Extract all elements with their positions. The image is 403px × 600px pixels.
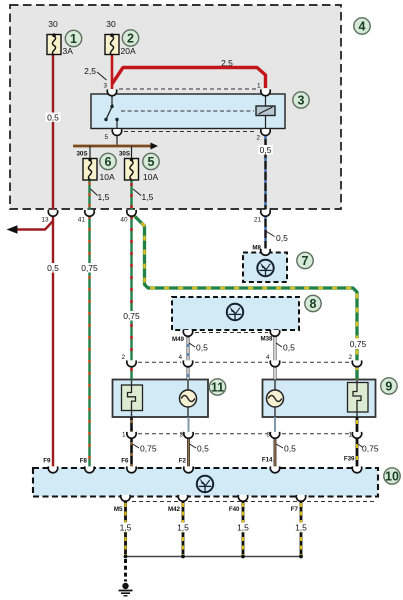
relay pin 1 arc bbox=[261, 89, 270, 95]
junction dot F7 bbox=[299, 555, 303, 559]
svg-text:30S: 30S bbox=[76, 151, 87, 158]
fuse F5 10A bbox=[125, 159, 139, 181]
relay pin 5 arc bbox=[112, 129, 121, 135]
svg-text:40: 40 bbox=[120, 217, 128, 224]
wire: relay pin5 stub to bus bbox=[116, 133, 118, 146]
wire: black/yellow ground wire F7 bbox=[300, 499, 303, 557]
box11 element symbol bbox=[122, 385, 143, 411]
svg-text:F14: F14 bbox=[262, 457, 273, 464]
circled number 9 bbox=[381, 378, 397, 394]
text 0,5 on red wire in box bbox=[46, 113, 61, 123]
bus 30S brown bbox=[73, 145, 151, 148]
svg-text:4: 4 bbox=[178, 354, 182, 361]
F14 arc bbox=[270, 466, 279, 472]
svg-text:3: 3 bbox=[298, 94, 305, 108]
svg-text:4: 4 bbox=[266, 354, 270, 361]
box9 lamp bbox=[267, 390, 284, 407]
svg-text:1: 1 bbox=[122, 432, 126, 439]
wire: black/yellow ground wire M5 bbox=[124, 499, 127, 557]
fog11 pin3 arc bbox=[184, 432, 193, 438]
svg-text:2: 2 bbox=[256, 135, 260, 142]
svg-text:2,5: 2,5 bbox=[221, 58, 233, 68]
svg-text:5: 5 bbox=[148, 155, 155, 169]
relay switch to pin5 stub bbox=[116, 120, 118, 129]
relay coil K bbox=[256, 106, 275, 116]
dashed link line top pins of fog lamps bbox=[138, 361, 181, 363]
svg-text:1,5: 1,5 bbox=[142, 192, 154, 202]
svg-text:0,75: 0,75 bbox=[140, 444, 157, 454]
mounting block (box 4) bbox=[10, 5, 341, 209]
fog11 pin1 arc bbox=[127, 432, 136, 438]
text 1,5 M42 bbox=[176, 523, 191, 533]
junction symbol in box 8 bbox=[227, 304, 243, 320]
leader lines for size labels bbox=[91, 189, 98, 196]
text 1,5 F40 bbox=[236, 523, 251, 533]
svg-text:3: 3 bbox=[179, 432, 183, 439]
M5 arc bbox=[121, 495, 130, 501]
F39 arc bbox=[352, 466, 361, 472]
svg-text:9: 9 bbox=[385, 380, 392, 394]
F7 arc bbox=[296, 495, 305, 501]
svg-text:10A: 10A bbox=[143, 172, 158, 182]
dashed link line box8 bottom pins bbox=[195, 332, 268, 334]
fuse F6 10A bbox=[83, 159, 97, 181]
box 10 ground distribution body bbox=[33, 468, 378, 497]
pin 13 arc bbox=[48, 210, 57, 216]
circled number 5 bbox=[143, 153, 159, 169]
svg-text:0,5: 0,5 bbox=[283, 343, 295, 353]
fog9 pin2 arc bbox=[352, 360, 361, 366]
box 9 right fog lamp body bbox=[263, 380, 376, 418]
svg-text:21: 21 bbox=[254, 217, 262, 224]
relay pin 3 arc bbox=[107, 89, 116, 95]
wire: white M38 to fog lamp 9 pin4 bbox=[274, 334, 277, 361]
relay pin 2 arc bbox=[261, 129, 270, 135]
M42 arc bbox=[178, 495, 187, 501]
svg-text:1: 1 bbox=[348, 432, 352, 439]
wire: green/yellow branch pin40 to fog lamp 9 pin2 bbox=[132, 213, 358, 361]
junction symbol in box 10 bbox=[197, 476, 213, 492]
svg-text:7: 7 bbox=[302, 254, 309, 268]
circled number 11 bbox=[209, 379, 225, 395]
box9 element symbol bbox=[348, 383, 369, 413]
text 0,75 green wire F8 bbox=[81, 263, 99, 273]
svg-text:0,5: 0,5 bbox=[47, 113, 59, 123]
svg-text:0,75: 0,75 bbox=[81, 263, 98, 273]
text 1,5 F7 bbox=[294, 523, 309, 533]
svg-text:20A: 20A bbox=[121, 46, 136, 56]
pin 21 arc bbox=[261, 210, 270, 216]
wire: black/blue relay pin2 to pin21 to M8 bbox=[264, 133, 266, 210]
F8 arc bbox=[85, 466, 94, 472]
circled number 8 bbox=[305, 295, 321, 311]
relay contact dot C bbox=[115, 118, 118, 121]
ground lead dashed bbox=[124, 559, 127, 582]
bus stub to fuse F5top bbox=[131, 146, 133, 159]
relay internal dashed line bbox=[121, 110, 254, 112]
svg-text:F2: F2 bbox=[179, 458, 187, 465]
wire: branch to left arrow bbox=[17, 221, 53, 230]
svg-text:10: 10 bbox=[385, 470, 399, 484]
svg-text:8: 8 bbox=[310, 297, 317, 311]
circled number 1 bbox=[65, 30, 81, 46]
M38 arc bbox=[270, 330, 279, 336]
relay coil to pin2 stub bbox=[265, 116, 267, 129]
wire: black/yellow ground wire M42 bbox=[182, 499, 185, 557]
text 0,75 green wire 40 bbox=[123, 311, 141, 321]
circled number 10 bbox=[384, 468, 400, 484]
svg-text:0,75: 0,75 bbox=[362, 444, 379, 454]
svg-text:10A: 10A bbox=[100, 172, 115, 182]
junction symbol in box 7 bbox=[257, 260, 273, 276]
M49 arc bbox=[183, 330, 192, 336]
wire: white/blue M49 to fog lamp 11 pin4 bbox=[187, 334, 190, 361]
svg-text:F9: F9 bbox=[43, 458, 51, 465]
wire: black/brown fog11 pin1 to F6 bbox=[130, 417, 133, 467]
circled number 3 bbox=[293, 92, 309, 108]
svg-text:1,5: 1,5 bbox=[98, 192, 110, 202]
box9 internal wire right bbox=[356, 380, 358, 384]
svg-text:11: 11 bbox=[211, 381, 224, 395]
svg-text:30S: 30S bbox=[119, 151, 130, 158]
F2 arc bbox=[184, 466, 193, 472]
svg-text:F7: F7 bbox=[291, 506, 299, 513]
fuse F2 20A bbox=[105, 35, 119, 55]
fog9 pin4 arc bbox=[270, 360, 279, 366]
svg-text:F8: F8 bbox=[80, 458, 88, 465]
svg-text:1: 1 bbox=[70, 32, 77, 46]
svg-text:5: 5 bbox=[104, 134, 108, 141]
relay switch feed stub bbox=[111, 95, 113, 107]
fuse F1 3A bbox=[47, 35, 61, 55]
fog11 pin2 arc bbox=[127, 360, 136, 366]
circled number 2 bbox=[122, 30, 138, 46]
svg-text:1: 1 bbox=[257, 83, 261, 90]
svg-text:4: 4 bbox=[359, 20, 366, 34]
svg-text:0,5: 0,5 bbox=[47, 263, 59, 273]
bus arrowhead bbox=[151, 143, 159, 150]
svg-text:3A: 3A bbox=[63, 46, 74, 56]
svg-text:M49: M49 bbox=[172, 336, 185, 343]
svg-text:6: 6 bbox=[105, 155, 112, 169]
F9 arc bbox=[48, 466, 57, 472]
svg-text:41: 41 bbox=[78, 217, 86, 224]
svg-text:2,5: 2,5 bbox=[84, 66, 96, 76]
box 11 left fog lamp body bbox=[113, 380, 209, 418]
wire: dark red from fuse F1 down to F9 bbox=[52, 54, 54, 210]
relay top pin link dashed bbox=[119, 88, 258, 90]
junction dot M42 bbox=[181, 555, 185, 559]
fog9 pin3 arc bbox=[270, 432, 279, 438]
wire: black/yellow fog9 pin1 to F39 bbox=[356, 417, 359, 467]
box11 lamp bbox=[180, 390, 197, 407]
text 0,5 red wire lower bbox=[46, 263, 61, 273]
M8 arc bbox=[261, 249, 270, 255]
svg-text:1,5: 1,5 bbox=[120, 523, 132, 533]
svg-text:30: 30 bbox=[48, 19, 58, 29]
svg-text:M5: M5 bbox=[114, 506, 123, 513]
svg-text:1,5: 1,5 bbox=[237, 523, 249, 533]
text 0,75 gy wire bbox=[349, 339, 367, 350]
F40 arc bbox=[238, 495, 247, 501]
svg-text:F39: F39 bbox=[344, 456, 355, 463]
relay bottom pin link dashed bbox=[124, 131, 257, 133]
text 0,5 blue wire upper bbox=[258, 145, 273, 155]
wire: thick red branch to relay pin 1 bbox=[112, 68, 266, 89]
pin 41 arc bbox=[85, 210, 94, 216]
text 1,5 M5 bbox=[118, 523, 133, 533]
svg-text:0,5: 0,5 bbox=[260, 145, 272, 155]
junction dot F40 bbox=[241, 555, 245, 559]
svg-text:1,5: 1,5 bbox=[177, 523, 189, 533]
dashed link line bottom pins of fog lamps bbox=[138, 433, 182, 435]
box 7 junction unit body bbox=[243, 253, 287, 283]
svg-text:13: 13 bbox=[41, 217, 49, 224]
junction dot M5 bbox=[124, 555, 128, 559]
wire: bright red fuse F2 to relay pin 3 bbox=[111, 54, 114, 89]
pin 40 arc bbox=[127, 210, 136, 216]
box11 internal wire left bbox=[131, 380, 133, 387]
ground point bbox=[122, 583, 128, 589]
svg-text:2: 2 bbox=[348, 354, 352, 361]
svg-text:0,5: 0,5 bbox=[284, 444, 296, 454]
wire: green/red from fuse5 to pin40 to fog lamp 11 bbox=[130, 180, 132, 210]
svg-text:3: 3 bbox=[266, 432, 270, 439]
relay coil feed stub bbox=[265, 95, 267, 107]
relay switch blade bbox=[106, 105, 113, 120]
svg-text:2: 2 bbox=[121, 354, 125, 361]
circled number 7 bbox=[297, 252, 313, 268]
relay box U3 body bbox=[91, 94, 285, 129]
circled number 6 bbox=[100, 153, 116, 169]
arrowhead left bbox=[7, 225, 18, 233]
ground collector line bbox=[126, 556, 302, 558]
wire: gray/tan fog9 pin3 to F14 bbox=[274, 417, 276, 432]
fog11 pin4 arc bbox=[183, 360, 192, 366]
svg-text:30: 30 bbox=[106, 19, 116, 29]
svg-text:F40: F40 bbox=[229, 506, 240, 513]
bus stub to fuse F6top bbox=[89, 146, 91, 159]
box 8 junction unit body bbox=[172, 297, 299, 330]
fog9 pin1 arc bbox=[352, 432, 361, 438]
dashed link line box10 bottom pins bbox=[132, 501, 376, 503]
svg-text:M8: M8 bbox=[252, 245, 261, 252]
svg-text:M38: M38 bbox=[260, 336, 273, 343]
svg-text:0,5: 0,5 bbox=[197, 444, 209, 454]
relay contact dot B bbox=[104, 118, 107, 121]
wire: brown fog11 pin3 to F2 bbox=[188, 417, 190, 432]
svg-text:0,5: 0,5 bbox=[276, 233, 288, 243]
svg-text:F6: F6 bbox=[121, 458, 129, 465]
wire: black/yellow ground wire F40 bbox=[242, 499, 245, 557]
svg-text:0,75: 0,75 bbox=[350, 339, 367, 349]
circled number 4 bbox=[354, 18, 370, 34]
svg-text:0,5: 0,5 bbox=[196, 343, 208, 353]
svg-text:3: 3 bbox=[103, 83, 107, 90]
svg-text:M42: M42 bbox=[168, 506, 181, 513]
wire: green/orange from fuse6 to pin41 to F8 bbox=[88, 180, 90, 210]
svg-text:1,5: 1,5 bbox=[295, 523, 307, 533]
box9 lamp wire bbox=[274, 380, 276, 392]
svg-text:2: 2 bbox=[127, 32, 134, 46]
box11 lamp wire bbox=[187, 380, 189, 392]
svg-text:0,75: 0,75 bbox=[123, 311, 140, 321]
relay contact dot A bbox=[110, 105, 113, 108]
F6 arc bbox=[127, 466, 136, 472]
